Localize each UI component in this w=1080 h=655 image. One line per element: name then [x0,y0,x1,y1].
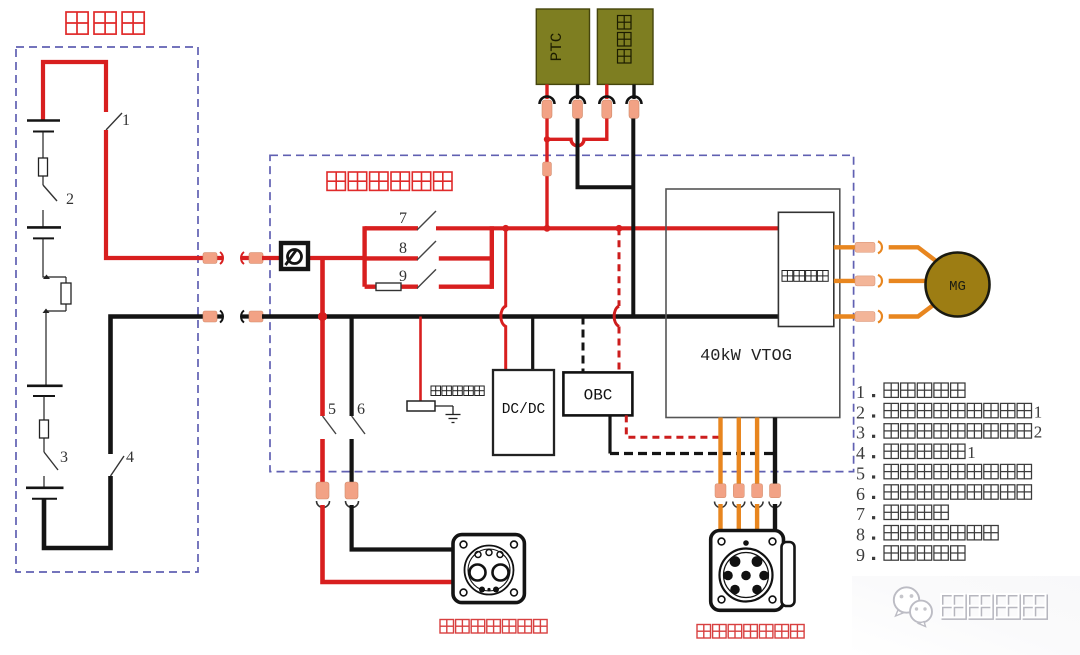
wire: red branch down to DC charging [320,258,325,416]
wire: red PTC feed down [545,119,548,229]
battery B1 [27,121,60,132]
wire red to DC port connector [320,439,325,484]
svg-text:2: 2 [856,402,865,422]
label: HV control assembly 高压电控总成 [327,172,452,190]
wire: red drop to DC/DC with hop over negative bus [501,228,506,370]
fuse F1 [39,158,48,176]
svg-text:4: 4 [856,443,865,463]
svg-text:1: 1 [1034,402,1043,421]
junction [544,225,551,232]
wire [42,132,44,159]
svg-text:2: 2 [66,191,74,208]
label: battery pack 电池包 [66,12,144,34]
motor MG [926,253,990,317]
watermark text 驱动视界 [941,594,1047,619]
wire red to DC port [323,505,454,582]
40kW VTOG inverter box [666,189,840,418]
AC charging inlet [711,531,795,611]
wire: positive red bus [262,256,365,260]
wire with arrow [43,238,66,277]
svg-text:OBC: OBC [584,387,613,405]
motor phase U wire [834,241,936,261]
svg-text:3: 3 [856,423,865,443]
svg-text:9: 9 [856,545,865,565]
wire: black PTC return [578,119,634,188]
wire: negative black bus [262,314,780,319]
switch 2 (分压接触器1) [43,185,74,208]
wire [42,176,44,185]
svg-text:MG: MG [949,279,966,295]
wire: red line from switch 7 to rectifier module [436,226,778,230]
AC neutral wire [769,418,781,532]
svg-text:8: 8 [856,525,865,545]
wire red positive top [43,62,106,120]
junction red over black bus [318,312,327,321]
wire: black compressor return to negative bus [631,119,635,317]
switch 6 (直流充电负极接触器) [352,401,365,434]
wire: black drop to DC/DC [531,317,534,371]
wire: red left bar of contactor bank [362,226,366,287]
switch 3 (分压接触器2) [44,449,68,470]
battery B2 [27,227,61,238]
wire: red dashed OBC feed with hop [618,228,621,306]
watermark background [852,576,1080,655]
wire [42,210,44,227]
motor phase V wire [834,275,928,287]
fuse F3 [40,420,49,438]
legend line 2 [856,402,1042,422]
wire [43,438,45,452]
legend line 5 [856,463,1032,483]
wire black to DC port connector [350,439,354,484]
label: DC charging port assembly 直流充电口总成 [440,620,547,634]
svg-text:7: 7 [856,504,865,524]
legend line 6 [856,484,1032,504]
switch 5 (直流充电正极接触器) [323,401,337,434]
wire: red lead to hall current sensor [419,317,422,402]
wire: black OBC output [608,415,611,453]
wire [43,476,45,488]
wire: black branch down to DC charging [350,317,354,417]
watermark logo (chat bubbles) [894,587,932,626]
wire black to DC port [352,505,453,550]
fuse F2 [61,277,71,311]
switch 8 (交流充电接触器) row [365,240,492,260]
svg-text:6: 6 [357,401,365,418]
HV control assembly enclosure (dashed) [270,155,854,471]
svg-text:5: 5 [856,463,865,483]
legend line 3 [856,423,1042,443]
switch 4 (负极接触器1) [111,449,135,476]
connector PTC+ [540,84,555,118]
connector on black DC charge wire [345,482,359,508]
svg-text:1: 1 [856,382,865,402]
svg-text:6: 6 [856,484,865,504]
wire: red dashed OBC output [626,415,720,437]
wire red from switch 1 down to red bus [106,130,204,258]
inline connector pair on negative bus [203,311,264,323]
junction [616,225,623,232]
AC phase wire 1 [715,418,727,532]
battery B4 [26,488,64,499]
DC charging inlet [453,535,524,603]
motor phase W wire [834,303,936,323]
svg-text:2: 2 [1034,423,1043,442]
ground [435,406,461,423]
svg-text:PTC: PTC [548,33,566,62]
battery B3 [27,386,63,396]
wire: black dashed OBC feed [582,317,585,373]
switch 7 (主接触器) row [365,210,436,230]
junction [544,136,550,142]
legend line 4 [856,443,976,463]
wire [43,396,45,420]
wire black negative bottom [44,476,111,548]
wire: black dashed to AC port line [610,452,775,455]
compressor box 压缩机 [597,9,653,84]
battery pack enclosure (dashed) [16,47,198,572]
inline connector piece on PTC feed [543,162,552,176]
rectifier module 整流模块 [778,212,833,326]
AC phase wire 2 [733,418,745,532]
AC phase wire 3 [751,418,763,532]
switch 9 (预充接触器) row with precharge resistor [365,268,492,291]
PTC heater box [536,9,589,84]
svg-text:7: 7 [399,210,407,227]
hall current sensor body [407,401,435,411]
wire: red jumper PTC to compressor with hop [547,119,607,146]
connector on red DC charge wire [316,482,330,508]
legend line 1 [856,382,965,402]
MSD manual service disconnect [281,243,308,269]
svg-text:40kW VTOG: 40kW VTOG [700,347,792,366]
junction [502,225,509,232]
inline connector pair on positive bus [203,252,264,264]
switch 1 (contactor 1) [106,112,130,130]
svg-text:5: 5 [328,401,336,418]
OBC on-board charger [563,372,632,415]
svg-text:1: 1 [967,443,976,462]
wire: red right bar of contactor bank [490,226,494,289]
connector compressor- [627,84,642,118]
connector PTC- [570,84,585,118]
wire black up to negative bus [111,317,205,455]
legend line 9 [856,545,965,565]
svg-text:3: 3 [60,449,68,466]
label: 霍尔传感器 [431,386,484,396]
legend line 7 [856,504,948,524]
wire with arrow [46,311,66,385]
svg-text:8: 8 [399,240,407,257]
svg-text:DC/DC: DC/DC [502,402,546,418]
svg-text:9: 9 [399,268,407,285]
connector compressor+ [599,84,614,118]
DC/DC converter U-DCDC [493,370,554,455]
label: AC charging port assembly 交流充电口总成 [697,625,804,639]
legend line 8 [856,525,998,545]
svg-text:1: 1 [122,112,130,129]
svg-text:4: 4 [126,449,134,466]
